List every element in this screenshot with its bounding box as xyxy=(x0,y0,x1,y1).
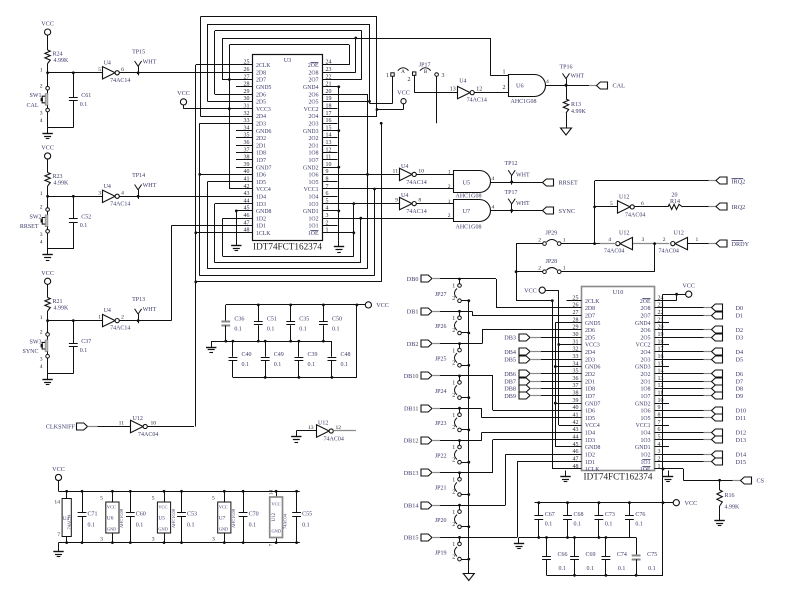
svg-text:38: 38 xyxy=(573,391,579,397)
wire xyxy=(460,440,567,473)
capacitor C50 xyxy=(319,305,342,341)
svg-text:0.1: 0.1 xyxy=(618,566,626,572)
svg-text:GND8: GND8 xyxy=(585,445,601,451)
U10 pin 32 2D4 xyxy=(567,347,596,356)
svg-text:1O4: 1O4 xyxy=(641,431,651,437)
and-gate U5 xyxy=(448,170,495,200)
svg-text:45: 45 xyxy=(573,442,579,448)
svg-text:2: 2 xyxy=(40,205,43,211)
U10 pin 28 GND5 xyxy=(567,317,601,326)
svg-text:42: 42 xyxy=(573,420,579,426)
svg-text:5: 5 xyxy=(98,67,101,73)
wire xyxy=(98,421,132,427)
svg-text:19: 19 xyxy=(326,96,332,102)
svg-text:JP20: JP20 xyxy=(435,518,447,524)
wire xyxy=(47,196,49,208)
svg-text:0.1: 0.1 xyxy=(302,523,310,529)
svg-text:74AC04: 74AC04 xyxy=(138,432,158,438)
U10 pin 4 GND1 xyxy=(635,442,669,451)
svg-text:11: 11 xyxy=(326,155,332,161)
capacitor C51 xyxy=(254,305,277,341)
svg-text:35: 35 xyxy=(244,133,250,139)
svg-text:GND1: GND1 xyxy=(303,209,319,215)
connector D0 xyxy=(669,304,743,312)
svg-text:48: 48 xyxy=(573,464,579,470)
svg-text:1: 1 xyxy=(563,238,566,244)
svg-text:74AC14: 74AC14 xyxy=(406,209,426,215)
svg-text:AHC1G08: AHC1G08 xyxy=(171,508,176,528)
svg-text:2O1: 2O1 xyxy=(641,379,651,385)
svg-text:3: 3 xyxy=(100,537,103,543)
svg-text:2O6: 2O6 xyxy=(309,92,319,98)
ground xyxy=(53,546,63,557)
svg-text:2: 2 xyxy=(448,213,451,219)
jumper JP22 xyxy=(435,441,461,465)
svg-text:9: 9 xyxy=(658,405,661,411)
wire xyxy=(138,196,236,198)
svg-text:DB6: DB6 xyxy=(504,371,516,378)
svg-text:GND7: GND7 xyxy=(585,401,601,407)
wire xyxy=(207,182,236,269)
connector D12 xyxy=(669,429,746,437)
svg-text:1: 1 xyxy=(452,381,455,387)
svg-text:DRDY: DRDY xyxy=(732,241,750,248)
wire xyxy=(222,38,236,80)
inverter U4 pin3-4 xyxy=(98,184,130,208)
svg-text:2O5: 2O5 xyxy=(309,100,319,106)
svg-text:74AC04: 74AC04 xyxy=(659,249,679,255)
wire xyxy=(196,232,236,234)
svg-text:D10: D10 xyxy=(736,408,747,415)
svg-text:16: 16 xyxy=(326,118,332,124)
wire xyxy=(47,284,49,297)
svg-text:D8: D8 xyxy=(736,386,744,393)
svg-text:35: 35 xyxy=(573,369,579,375)
U10 pin 21 GND4 xyxy=(635,317,669,326)
U10 pin 40 1D6 xyxy=(567,405,596,414)
svg-text:1O2: 1O2 xyxy=(309,216,319,222)
connector D5 xyxy=(669,356,743,363)
U3 pin 33 2D3 xyxy=(236,118,266,127)
svg-text:U6: U6 xyxy=(107,516,114,522)
svg-text:3: 3 xyxy=(658,449,661,455)
U3 pin 26 2D8 xyxy=(236,67,266,76)
svg-text:7: 7 xyxy=(326,184,329,190)
connector DB14 xyxy=(404,502,440,509)
jumper JP29 xyxy=(538,231,565,246)
svg-text:43: 43 xyxy=(244,191,250,197)
svg-text:C70: C70 xyxy=(249,512,259,518)
svg-text:74AC14: 74AC14 xyxy=(110,201,130,207)
U10 pin 39 GND7 xyxy=(567,398,601,407)
svg-text:1: 1 xyxy=(452,413,455,419)
U3 pin 16 2O3 xyxy=(309,118,338,127)
U3 pin 18 VCC2 xyxy=(304,104,338,113)
svg-text:26: 26 xyxy=(244,67,250,73)
connector DB7 xyxy=(504,378,566,385)
svg-text:1: 1 xyxy=(40,315,43,321)
svg-text:AHC1G08: AHC1G08 xyxy=(511,99,537,105)
svg-text:GND2: GND2 xyxy=(303,165,319,171)
svg-text:31: 31 xyxy=(244,104,250,110)
capacitor C35 xyxy=(286,305,309,341)
svg-text:VCC2: VCC2 xyxy=(636,343,651,349)
svg-text:DB8: DB8 xyxy=(504,386,516,393)
svg-text:1: 1 xyxy=(563,266,566,272)
ground xyxy=(206,341,216,352)
svg-text:2: 2 xyxy=(452,393,455,399)
svg-text:1: 1 xyxy=(448,199,451,205)
svg-text:DB9: DB9 xyxy=(504,393,516,400)
svg-text:SYNC: SYNC xyxy=(22,349,38,355)
IC U3 body xyxy=(253,55,323,241)
svg-text:U7: U7 xyxy=(219,516,226,522)
wire xyxy=(440,375,461,378)
wire xyxy=(48,112,74,128)
svg-text:2CLK: 2CLK xyxy=(256,63,271,69)
svg-text:C51: C51 xyxy=(267,317,277,323)
test point TP15 xyxy=(132,49,156,75)
svg-text:DB14: DB14 xyxy=(404,502,419,509)
svg-text:TP12: TP12 xyxy=(505,161,518,167)
svg-text:34: 34 xyxy=(573,361,579,367)
svg-text:36: 36 xyxy=(244,140,250,146)
wire xyxy=(440,504,461,507)
svg-text:74AC04: 74AC04 xyxy=(604,249,624,255)
capacitor C66 xyxy=(542,538,567,576)
svg-text:44: 44 xyxy=(244,198,250,204)
wire xyxy=(460,432,567,440)
ground xyxy=(42,249,52,261)
svg-text:0.1: 0.1 xyxy=(187,523,195,529)
U10 pin 42 VCC4 xyxy=(567,420,600,429)
svg-text:U10: U10 xyxy=(613,289,624,296)
jumper JP25 xyxy=(435,344,461,368)
power VCC xyxy=(41,21,54,36)
wire xyxy=(59,542,300,544)
svg-text:C52: C52 xyxy=(81,214,91,220)
ground xyxy=(561,128,572,135)
svg-text:37: 37 xyxy=(573,383,579,389)
wire xyxy=(461,493,470,496)
jumper JP26 xyxy=(435,311,461,335)
svg-text:15: 15 xyxy=(326,125,332,131)
U10 pin 8 1O5 xyxy=(641,413,669,422)
wire xyxy=(460,462,567,538)
U3 pin 13 2O1 xyxy=(309,140,338,149)
U3 pin 48 1CLK xyxy=(236,228,271,237)
svg-text:U12: U12 xyxy=(133,416,143,422)
svg-text:6: 6 xyxy=(121,67,124,73)
U10 pin 13 2O1 xyxy=(641,376,669,385)
svg-text:4.99K: 4.99K xyxy=(54,181,70,187)
connector CAL xyxy=(589,82,625,90)
svg-text:4: 4 xyxy=(608,237,611,243)
svg-text:26: 26 xyxy=(573,303,579,309)
ground xyxy=(42,374,52,385)
wire xyxy=(229,44,349,46)
inverter U12 pin11-10 xyxy=(131,416,159,438)
svg-text:27: 27 xyxy=(244,74,250,80)
jumper JP20 xyxy=(435,505,461,528)
svg-text:0.1: 0.1 xyxy=(648,566,656,572)
svg-text:1D7: 1D7 xyxy=(256,158,266,164)
svg-text:GND: GND xyxy=(158,527,168,532)
svg-text:U4: U4 xyxy=(401,164,408,170)
svg-text:U4: U4 xyxy=(104,60,111,66)
and-gate U6 xyxy=(503,70,550,106)
svg-text:C75: C75 xyxy=(647,552,657,558)
U3 pin 12 1O8 xyxy=(309,147,338,156)
wire xyxy=(687,243,708,245)
svg-text:WHT: WHT xyxy=(143,183,157,189)
connector D13 xyxy=(669,436,746,444)
svg-text:DB15: DB15 xyxy=(404,535,419,542)
svg-text:2: 2 xyxy=(538,238,541,244)
capacitor C67 xyxy=(534,503,554,538)
svg-text:JP27: JP27 xyxy=(435,292,447,298)
wire xyxy=(475,92,509,94)
U10 pin 33 2D3 xyxy=(567,354,596,363)
svg-text:2: 2 xyxy=(503,85,506,91)
svg-text:B: B xyxy=(424,69,428,75)
U10 pin 23 2O8 xyxy=(641,303,669,312)
svg-text:0.1: 0.1 xyxy=(574,522,582,528)
svg-text:14: 14 xyxy=(270,490,275,496)
svg-text:30: 30 xyxy=(573,332,579,338)
svg-text:C60: C60 xyxy=(136,512,146,518)
svg-text:1O3: 1O3 xyxy=(309,202,319,208)
wire xyxy=(148,426,194,428)
U3 pin 4 GND1 xyxy=(303,206,337,215)
capacitor C74 xyxy=(602,538,627,576)
svg-text:3: 3 xyxy=(212,537,215,543)
svg-text:VCC: VCC xyxy=(107,505,116,510)
resistor R16 xyxy=(717,480,740,514)
power VCC xyxy=(524,287,545,294)
svg-text:D6: D6 xyxy=(736,371,744,378)
svg-text:2D5: 2D5 xyxy=(585,335,595,341)
svg-text:JP26: JP26 xyxy=(435,324,447,330)
wire xyxy=(370,76,393,103)
wire xyxy=(546,84,597,87)
svg-text:1CLK: 1CLK xyxy=(256,231,271,237)
U10 pin 41 1D5 xyxy=(567,413,596,422)
wire xyxy=(440,407,461,410)
svg-text:2: 2 xyxy=(452,425,455,431)
svg-text:GND2: GND2 xyxy=(635,401,651,407)
svg-text:0.1: 0.1 xyxy=(249,523,257,529)
svg-text:0.1: 0.1 xyxy=(234,326,242,332)
svg-text:5: 5 xyxy=(658,434,661,440)
svg-text:1D4: 1D4 xyxy=(585,431,595,437)
svg-text:VCC: VCC xyxy=(177,90,190,97)
inverter U12 pin13-12 xyxy=(317,421,344,443)
U3 pin 7 VCC1 xyxy=(304,184,338,193)
svg-text:GND5: GND5 xyxy=(256,85,272,91)
svg-text:13: 13 xyxy=(308,425,314,431)
svg-text:U5: U5 xyxy=(158,516,165,522)
svg-text:0.1: 0.1 xyxy=(136,523,144,529)
connector D2 xyxy=(669,326,743,334)
svg-text:AHC1G08: AHC1G08 xyxy=(119,508,124,528)
svg-text:1D6: 1D6 xyxy=(256,173,266,179)
svg-text:SYNC: SYNC xyxy=(559,208,576,215)
wire xyxy=(48,358,74,374)
U10 pin 15 GND3 xyxy=(635,361,669,370)
U10 pin 35 2D2 xyxy=(567,369,596,378)
svg-text:U4: U4 xyxy=(459,79,466,85)
jumper JP17 xyxy=(386,62,445,83)
svg-text:GND: GND xyxy=(219,527,229,532)
wire xyxy=(377,104,404,110)
svg-text:GND4: GND4 xyxy=(303,85,319,91)
svg-text:40: 40 xyxy=(573,405,579,411)
svg-text:1OE: 1OE xyxy=(308,231,319,237)
svg-text:1O1: 1O1 xyxy=(309,224,319,230)
svg-text:4: 4 xyxy=(40,239,43,245)
wire xyxy=(416,203,453,205)
svg-text:2O1: 2O1 xyxy=(309,143,319,149)
U10 pin 5 1O3 xyxy=(641,434,669,443)
U3 pin 28 GND5 xyxy=(236,82,272,91)
svg-text:47: 47 xyxy=(244,220,250,226)
power VCC xyxy=(177,90,190,105)
U10 pin 37 1D8 xyxy=(567,383,596,392)
connector DB9 xyxy=(504,392,566,400)
svg-text:1O4: 1O4 xyxy=(309,195,319,201)
svg-text:1D8: 1D8 xyxy=(256,151,266,157)
U3 pin 35 2D2 xyxy=(236,133,266,142)
svg-text:VCC: VCC xyxy=(524,287,537,294)
svg-text:D2: D2 xyxy=(736,327,744,334)
connector DB1 xyxy=(407,308,440,316)
U10 pin 22 2O7 xyxy=(641,310,669,319)
svg-text:22: 22 xyxy=(326,74,332,80)
svg-text:74AC14: 74AC14 xyxy=(66,514,71,530)
inverter U12 pin5-6 xyxy=(610,194,645,218)
svg-text:0.1: 0.1 xyxy=(80,223,88,229)
svg-text:46: 46 xyxy=(244,213,250,219)
capacitor C60 xyxy=(126,490,146,544)
wire xyxy=(461,364,470,367)
svg-text:DB13: DB13 xyxy=(404,470,419,477)
wire xyxy=(662,294,665,504)
svg-text:SW2: SW2 xyxy=(30,215,42,221)
svg-text:1: 1 xyxy=(452,510,455,516)
svg-text:TP13: TP13 xyxy=(132,297,145,303)
wire xyxy=(440,278,461,281)
svg-text:6: 6 xyxy=(658,427,661,433)
wire xyxy=(223,218,237,256)
svg-text:5: 5 xyxy=(152,496,155,502)
svg-text:2O3: 2O3 xyxy=(641,357,651,363)
svg-text:2D3: 2D3 xyxy=(585,357,595,363)
capacitor C39 xyxy=(295,341,318,377)
capacitor C52 xyxy=(69,196,91,249)
U10 pin 9 1O6 xyxy=(641,405,669,414)
svg-text:D4: D4 xyxy=(736,349,744,356)
ground xyxy=(463,574,474,581)
svg-text:45: 45 xyxy=(244,206,250,212)
U10 pin 12 1O8 xyxy=(641,383,669,392)
svg-text:DB3: DB3 xyxy=(504,334,516,341)
svg-text:41: 41 xyxy=(244,177,250,183)
connector D3 xyxy=(669,334,743,341)
connector D14 xyxy=(669,451,746,459)
svg-text:28: 28 xyxy=(573,317,579,323)
svg-text:U12: U12 xyxy=(272,512,277,521)
U10 pin 46 1D2 xyxy=(567,449,596,458)
svg-text:1: 1 xyxy=(448,170,451,176)
svg-text:34: 34 xyxy=(244,125,250,131)
svg-text:U4: U4 xyxy=(104,308,111,314)
svg-text:2: 2 xyxy=(538,266,541,272)
svg-text:2: 2 xyxy=(452,296,455,302)
ground xyxy=(334,241,344,253)
svg-text:GND: GND xyxy=(272,529,282,534)
svg-text:1O1: 1O1 xyxy=(641,460,651,466)
U3 pin 21 GND4 xyxy=(303,82,337,91)
ground xyxy=(663,471,673,482)
svg-text:9: 9 xyxy=(326,169,329,175)
svg-text:36: 36 xyxy=(573,376,579,382)
capacitor C69 xyxy=(570,538,595,576)
wire xyxy=(200,16,377,18)
svg-text:VCC: VCC xyxy=(41,145,54,152)
IC U7 power xyxy=(212,490,236,544)
svg-text:1: 1 xyxy=(452,316,455,322)
wire xyxy=(683,206,709,208)
wire xyxy=(48,233,74,249)
svg-text:1O6: 1O6 xyxy=(641,409,651,415)
svg-text:74AC14: 74AC14 xyxy=(406,180,426,186)
wire xyxy=(416,174,453,176)
svg-text:DB1: DB1 xyxy=(407,309,419,316)
inverter U4 pin1-2 xyxy=(98,308,130,332)
U10 pin 36 2D1 xyxy=(567,376,596,385)
U3 pin 44 1D3 xyxy=(236,198,266,207)
jumper JP23 xyxy=(435,408,461,432)
svg-text:2: 2 xyxy=(452,328,455,334)
connector IRQ2bar xyxy=(709,177,746,185)
svg-text:8: 8 xyxy=(658,413,661,419)
svg-text:2: 2 xyxy=(448,184,451,190)
svg-text:U12: U12 xyxy=(619,230,629,236)
connector DB4 xyxy=(504,348,566,356)
svg-text:VCC4: VCC4 xyxy=(256,187,271,193)
svg-text:1D7: 1D7 xyxy=(585,394,595,400)
svg-text:C40: C40 xyxy=(242,352,252,358)
svg-text:1D2: 1D2 xyxy=(585,453,595,459)
svg-text:2O2: 2O2 xyxy=(309,136,319,142)
wire xyxy=(669,469,733,482)
connector D4 xyxy=(669,348,743,356)
test point TP17 xyxy=(505,190,530,213)
U10 pin 14 2O2 xyxy=(641,369,669,378)
svg-text:4.99K: 4.99K xyxy=(725,505,741,511)
wire xyxy=(440,342,461,345)
wire xyxy=(223,256,354,258)
svg-text:0.1: 0.1 xyxy=(559,566,567,572)
U3 pin 9 1O6 xyxy=(309,169,338,178)
svg-text:VCC: VCC xyxy=(158,505,167,510)
svg-text:1D5: 1D5 xyxy=(256,180,266,186)
capacitor C68 xyxy=(563,503,583,538)
wire xyxy=(58,543,60,546)
wire xyxy=(138,226,236,321)
wire xyxy=(663,293,686,296)
